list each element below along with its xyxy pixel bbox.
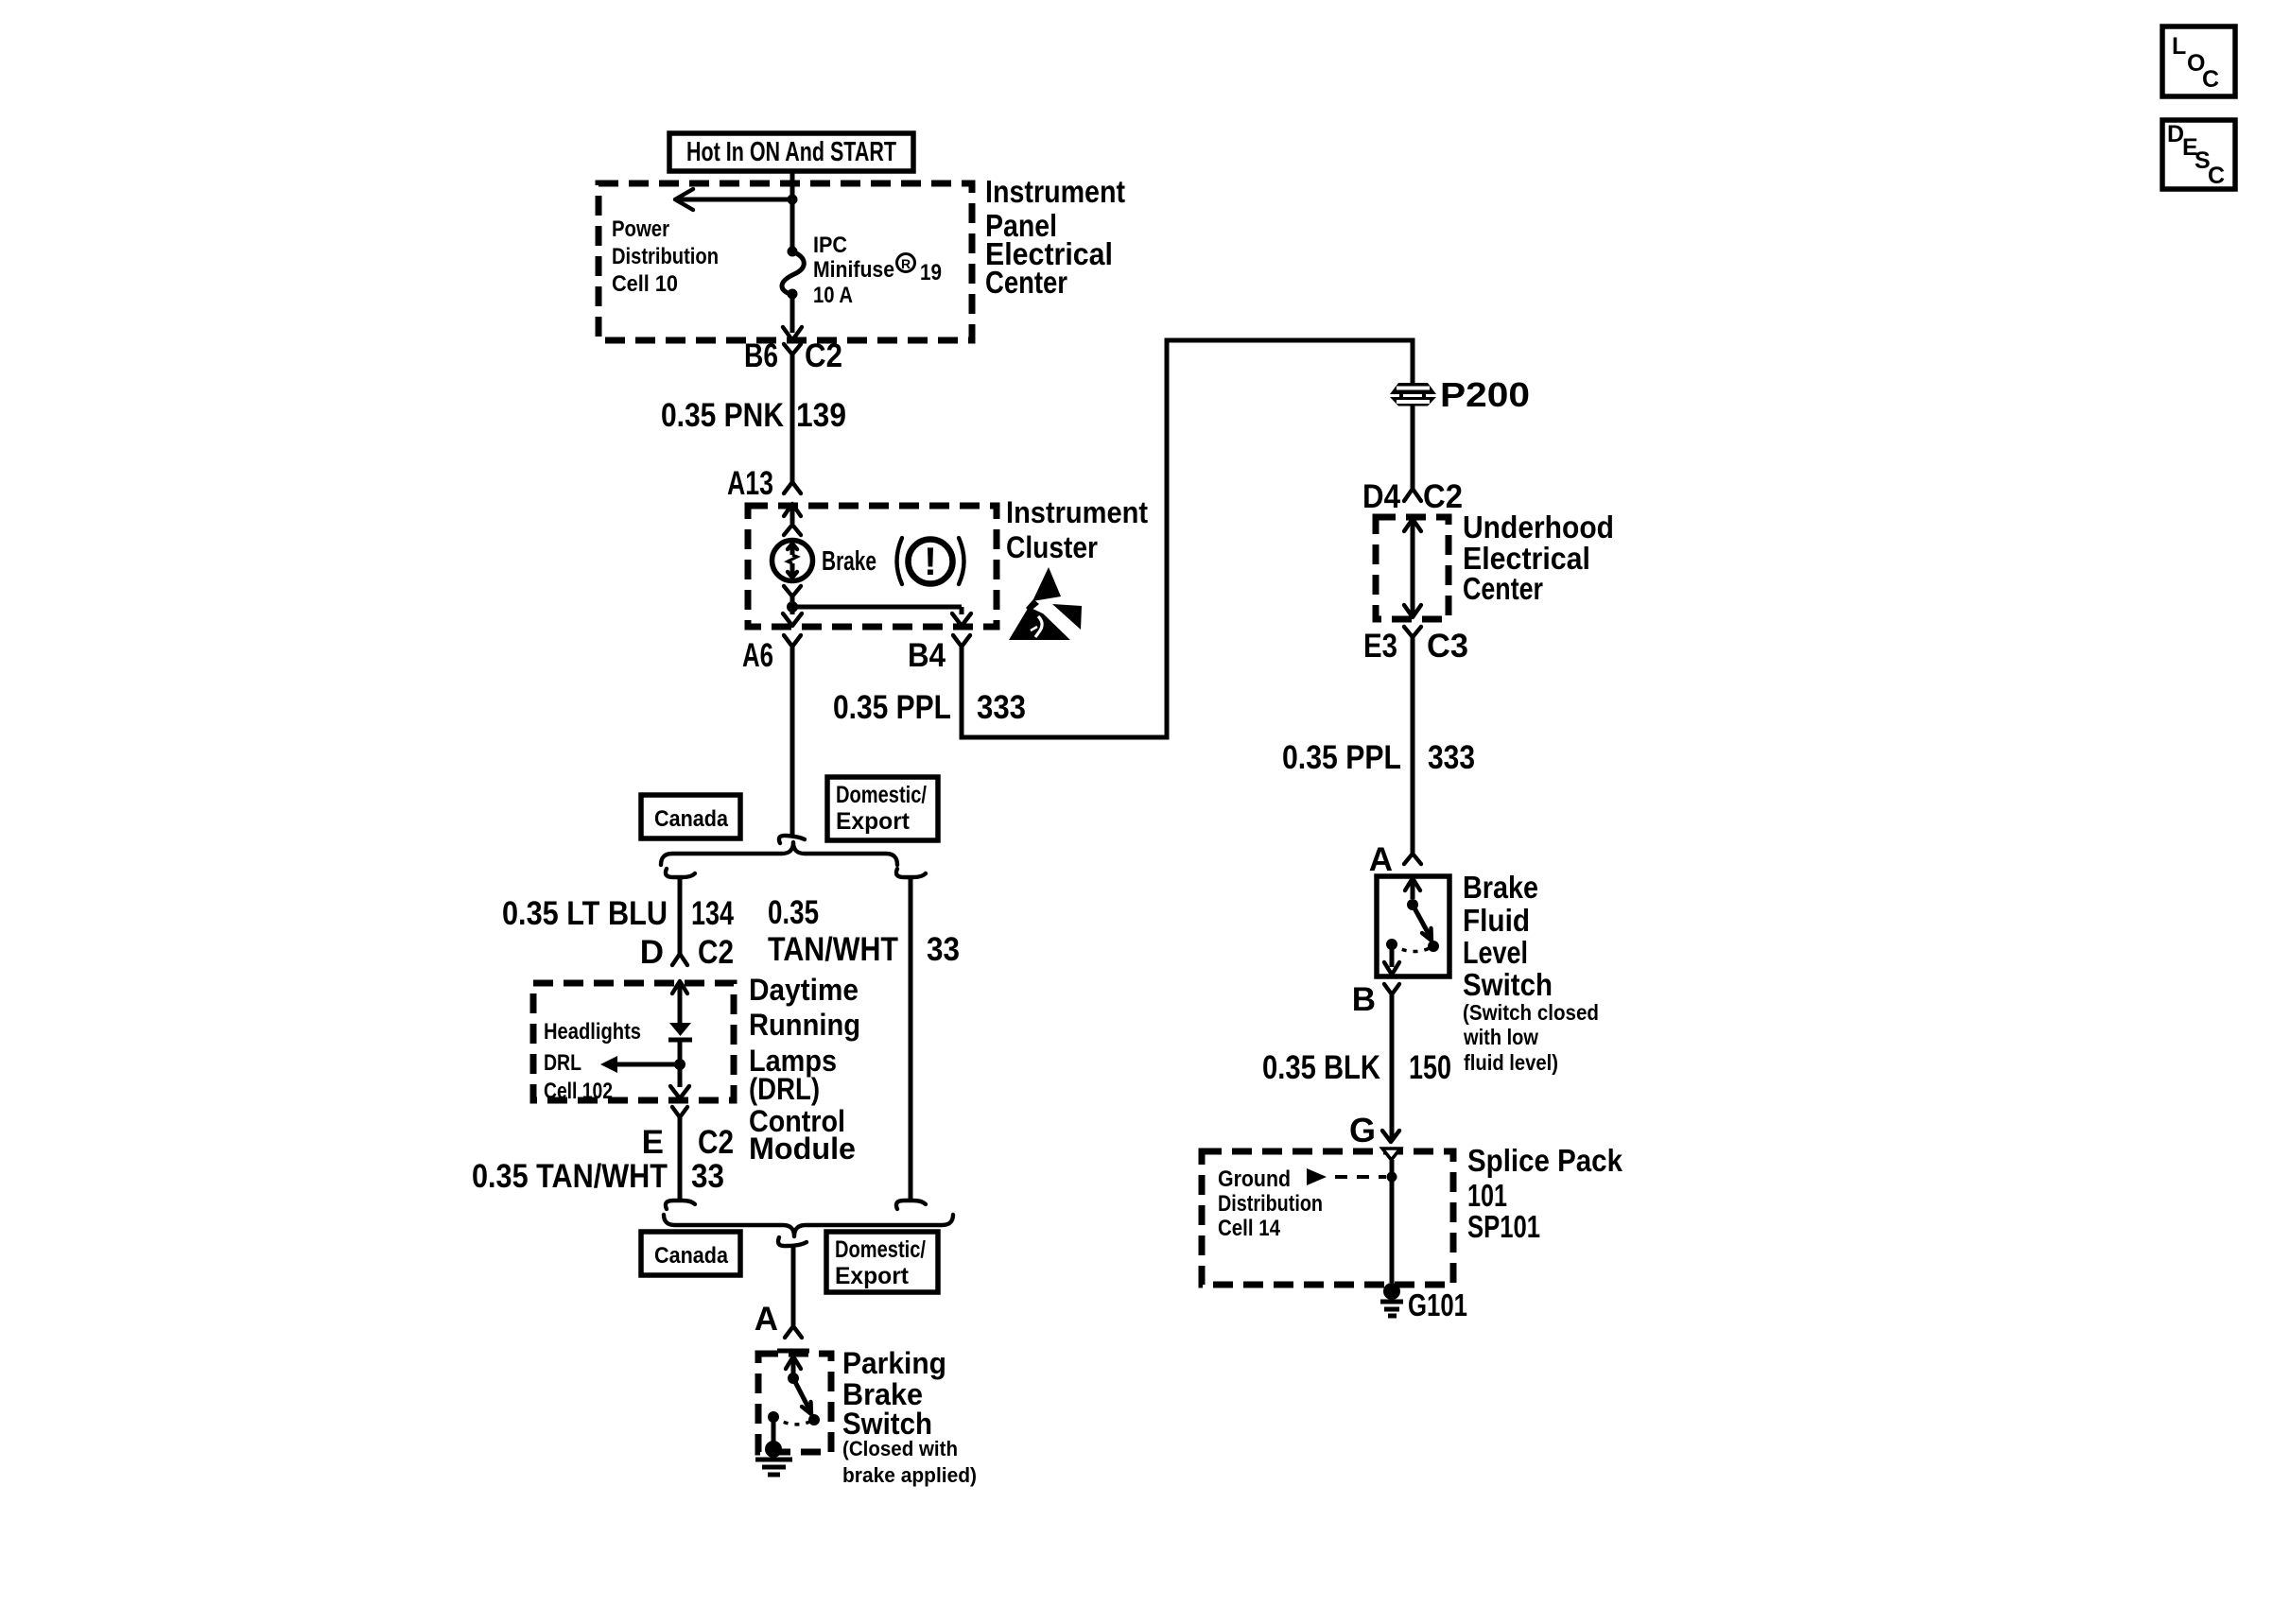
svg-text:Fluid: Fluid: [1463, 903, 1530, 938]
svg-text:Canada: Canada: [654, 806, 729, 832]
svg-text:101: 101: [1467, 1178, 1507, 1213]
svg-text:L: L: [2172, 33, 2186, 60]
svg-text:0.35 PPL: 0.35 PPL: [1282, 739, 1401, 776]
svg-text:E3: E3: [1363, 628, 1397, 665]
brace top (Canada / Domestic split): [661, 842, 897, 865]
svg-text:C2: C2: [698, 934, 734, 971]
svg-text:SP101: SP101: [1467, 1209, 1540, 1244]
svg-text:Running: Running: [749, 1008, 860, 1042]
svg-text:Domestic/: Domestic/: [836, 782, 927, 808]
svg-text:R: R: [901, 256, 911, 271]
svg-text:C2: C2: [805, 337, 842, 374]
svg-text:33: 33: [691, 1158, 724, 1195]
wire 0.35 BLK 150: [1262, 994, 1451, 1139]
svg-text:A6: A6: [742, 637, 773, 674]
Parking Brake Switch dashed box: [758, 1346, 977, 1487]
svg-text:Power: Power: [612, 216, 669, 242]
svg-text:Distribution: Distribution: [612, 244, 719, 269]
label Headlights DRL Cell 102: [544, 1019, 641, 1104]
connector A at fluid switch: [1369, 841, 1421, 878]
svg-text:Instrument: Instrument: [985, 174, 1125, 209]
left branch wire (Canada): [502, 869, 734, 971]
ground at parking brake switch: [755, 1441, 792, 1475]
svg-text:0.35 BLK: 0.35 BLK: [1262, 1049, 1380, 1086]
svg-text:150: 150: [1409, 1049, 1451, 1086]
brake warning symbol ((!)): [897, 538, 964, 584]
power label box "Hot In ON And START": [669, 133, 913, 171]
svg-text:0.35 TAN/WHT: 0.35 TAN/WHT: [472, 1158, 668, 1195]
svg-text:0.35 PNK: 0.35 PNK: [661, 397, 784, 434]
svg-text:G: G: [1349, 1111, 1376, 1149]
connector P200: [1390, 375, 1530, 414]
svg-text:Cell 102: Cell 102: [544, 1079, 613, 1104]
Canada box (upper): [641, 795, 740, 838]
svg-text:19: 19: [920, 260, 942, 285]
svg-text:with low: with low: [1463, 1025, 1538, 1049]
svg-text:Splice Pack: Splice Pack: [1467, 1143, 1623, 1178]
connector G arrow: [1349, 1111, 1399, 1149]
DRL pin arrow: [672, 981, 687, 1023]
node junction at power feed: [788, 195, 798, 205]
svg-text:Export: Export: [835, 1263, 910, 1289]
Instrument Cluster dashed box: [748, 495, 1148, 627]
wire arrow to Power Distribution: [675, 189, 790, 210]
Splice Pack SP101 dashed box: [1202, 1143, 1623, 1285]
connector A6: [742, 607, 802, 674]
svg-text:fluid level): fluid level): [1464, 1050, 1558, 1075]
node splice junction: [1387, 1172, 1397, 1183]
connector E3/C3 fork: [1363, 627, 1468, 665]
wire to B4: [792, 605, 962, 610]
svg-text:0.35: 0.35: [768, 894, 819, 931]
svg-text:Hot In ON And START: Hot In ON And START: [686, 137, 896, 167]
svg-text:C2: C2: [698, 1124, 734, 1161]
svg-text:10 A: 10 A: [813, 283, 853, 308]
svg-text:TAN/WHT: TAN/WHT: [768, 931, 898, 968]
svg-text:Parking: Parking: [842, 1346, 946, 1380]
Domestic/Export box (lower): [826, 1232, 938, 1292]
svg-text:Minifuse: Minifuse: [813, 257, 894, 283]
svg-text:Switch: Switch: [1463, 967, 1553, 1002]
wire arrow to Headlights DRL: [600, 1056, 680, 1073]
diode inside DRL: [668, 1023, 692, 1064]
parking brake switch internals: [768, 1351, 820, 1443]
svg-text:Center: Center: [985, 265, 1067, 300]
LOC reference box: [2162, 26, 2235, 96]
svg-text:B: B: [1352, 981, 1376, 1018]
svg-text:Daytime: Daytime: [749, 973, 859, 1007]
wire 0.35 PPL 333 (right): [1282, 637, 1475, 854]
Brake Fluid Level Switch box: [1377, 870, 1599, 1075]
svg-text:Export: Export: [836, 808, 911, 835]
svg-text:Distribution: Distribution: [1218, 1191, 1323, 1217]
wire 0.35 TAN/WHT 33 (left): [472, 1117, 724, 1209]
wire from B4 to P200: [962, 340, 1413, 737]
label Ground Distribution Cell 14: [1218, 1166, 1323, 1241]
node below lamp: [784, 586, 801, 613]
svg-text:Brake: Brake: [1463, 870, 1538, 905]
svg-text:A: A: [1369, 841, 1393, 878]
Daytime Running Lamps (DRL) Control Module dashed box: [533, 973, 860, 1166]
svg-text:Center: Center: [1463, 571, 1543, 606]
connector D4/C2 fork: [1362, 406, 1463, 515]
wire through splice pack: [1390, 1160, 1395, 1283]
fuse IPC Minifuse 19 10A: [782, 199, 942, 333]
splice terminal triangle: [1382, 1149, 1400, 1160]
fluid switch internals: [1384, 878, 1439, 975]
svg-text:Instrument: Instrument: [1006, 495, 1148, 529]
svg-text:0.35 LT BLU: 0.35 LT BLU: [502, 895, 668, 932]
svg-text:C: C: [2202, 66, 2219, 93]
svg-text:brake applied): brake applied): [842, 1463, 977, 1487]
svg-text:Domestic/: Domestic/: [835, 1236, 926, 1263]
svg-text:P200: P200: [1440, 375, 1530, 414]
right branch wire (Domestic) 0.35 TAN/WHT 33: [768, 869, 960, 1209]
Brake indicator lamp: [772, 541, 877, 581]
wire to Parking Brake Switch, connector A: [755, 1237, 807, 1338]
connector B6/C2 (male arrow + female fork): [744, 327, 842, 374]
svg-text:C3: C3: [1427, 628, 1468, 665]
ESD sensitive symbol: [1009, 567, 1082, 642]
wire stub above brace: [790, 647, 795, 836]
svg-text:D: D: [640, 934, 664, 971]
connector E/C2: [642, 1064, 734, 1161]
svg-text:Level: Level: [1463, 935, 1528, 970]
svg-text:G101: G101: [1408, 1287, 1467, 1322]
wire label 0.35 PPL 333: [833, 689, 1026, 726]
svg-text:C: C: [2208, 163, 2225, 189]
Instrument Panel Electrical Center dashed box: [599, 174, 1125, 340]
svg-text:E: E: [642, 1124, 664, 1161]
svg-text:(Closed with: (Closed with: [842, 1437, 958, 1460]
Canada box (lower): [641, 1232, 740, 1275]
svg-text:134: 134: [691, 895, 734, 932]
svg-text:(Switch closed: (Switch closed: [1463, 1000, 1599, 1025]
ground G101: [1380, 1283, 1467, 1322]
svg-text:Module: Module: [749, 1132, 856, 1166]
svg-text:333: 333: [977, 689, 1026, 726]
svg-text:A13: A13: [727, 465, 773, 502]
wire from Hot box into IPEC: [790, 171, 795, 200]
label Power Distribution Cell 10: [612, 216, 719, 297]
Underhood Electrical Center dashed box: [1376, 510, 1614, 619]
svg-text:B6: B6: [744, 337, 778, 374]
UEC through-wire with arrows: [1404, 519, 1421, 617]
svg-text:0.35 PPL: 0.35 PPL: [833, 689, 951, 726]
Domestic/Export box (upper): [827, 777, 938, 840]
svg-text:B4: B4: [908, 637, 946, 674]
brace bottom: [664, 1215, 953, 1236]
svg-text:Canada: Canada: [654, 1243, 729, 1269]
svg-text:333: 333: [1428, 739, 1475, 776]
svg-text:D4: D4: [1362, 478, 1400, 515]
svg-text:Switch: Switch: [842, 1407, 932, 1441]
svg-text:A: A: [755, 1301, 778, 1338]
svg-text:Ground: Ground: [1218, 1166, 1291, 1192]
svg-text:Headlights: Headlights: [544, 1019, 641, 1045]
svg-text:DRL: DRL: [544, 1050, 581, 1076]
svg-text:IPC: IPC: [813, 233, 847, 258]
svg-text:Cell 14: Cell 14: [1218, 1216, 1281, 1241]
svg-text:Underhood: Underhood: [1463, 510, 1614, 544]
connector B4: [908, 607, 971, 674]
svg-text:33: 33: [927, 931, 960, 968]
svg-text:(DRL): (DRL): [749, 1072, 820, 1106]
wire 0.35 PNK 139: [661, 354, 846, 482]
connector A13 fork: [727, 465, 801, 502]
pin arrow into cluster: [784, 504, 801, 535]
DESC reference box: [2162, 120, 2235, 189]
svg-text:C2: C2: [1423, 478, 1463, 515]
svg-text:139: 139: [796, 397, 846, 434]
svg-text:!: !: [924, 539, 937, 583]
connector B fork: [1352, 981, 1399, 1018]
dashed pointer to splice: [1307, 1168, 1386, 1185]
svg-text:Cluster: Cluster: [1006, 530, 1098, 564]
svg-text:Cell 10: Cell 10: [612, 271, 678, 297]
node in DRL: [674, 1059, 685, 1070]
svg-text:Brake: Brake: [822, 546, 876, 577]
